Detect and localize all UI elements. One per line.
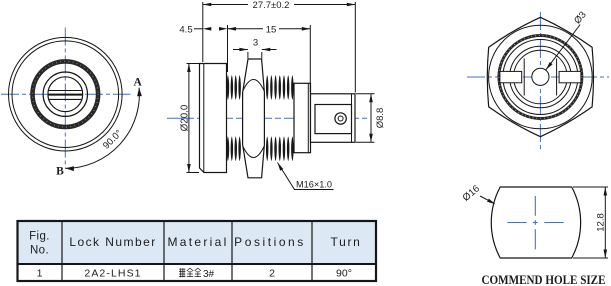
root cylinder step edge xyxy=(307,83,309,152)
dim 12.8 ext top xyxy=(573,186,608,188)
rear housing O8.8 xyxy=(311,94,356,143)
M16 leader line xyxy=(278,163,334,190)
svg-text:Ø8.8: Ø8.8 xyxy=(375,108,386,129)
dim O8.8 top arrow xyxy=(369,94,373,103)
dim 12.8 line xyxy=(604,187,606,258)
svg-text:Positions: Positions xyxy=(234,235,306,249)
svg-text:1: 1 xyxy=(37,268,43,280)
arc arrowhead at A end xyxy=(137,88,142,97)
table header fill xyxy=(18,221,377,264)
dim 27.7 line left segment xyxy=(203,4,248,6)
front view centerline horizontal xyxy=(1,93,131,95)
hole center mark horizontal xyxy=(507,222,526,224)
table column line 4 xyxy=(311,221,313,281)
rear view centerline horizontal xyxy=(467,76,609,78)
dim O8.8 ext top xyxy=(356,93,375,95)
svg-text:15: 15 xyxy=(266,24,277,35)
slot wall right inner xyxy=(556,59,558,96)
svg-text:Ø3: Ø3 xyxy=(572,9,589,26)
nut chamfer arc bottom xyxy=(243,147,264,158)
svg-text:2A2-LHS1: 2A2-LHS1 xyxy=(84,268,141,280)
key slot lower line xyxy=(49,98,82,100)
dim 15 extension right xyxy=(309,25,311,93)
dim 3 right arrow xyxy=(262,48,271,52)
dim 4.5 left arrow xyxy=(203,27,212,31)
dim 15 line right segment xyxy=(279,28,310,30)
knurled ring xyxy=(33,61,99,127)
rear view centerline vertical xyxy=(539,12,541,150)
svg-text:Lock Number: Lock Number xyxy=(69,235,156,249)
dim 3 ext left xyxy=(247,52,249,58)
dim 4.5 leader to ext xyxy=(194,28,203,30)
rear housing inner wall xyxy=(351,94,353,143)
dim 15 right arrow xyxy=(302,27,311,31)
svg-text:Material: Material xyxy=(167,235,228,249)
rear knurl inner circle xyxy=(503,40,578,115)
svg-text:Fig.: Fig. xyxy=(29,231,50,243)
right tab xyxy=(559,71,581,82)
table outer border xyxy=(18,221,377,281)
dim 3 left tail xyxy=(233,49,248,51)
rotation arc A to B xyxy=(65,88,139,169)
dim 12.8 bottom arrow xyxy=(604,250,608,259)
rear knurl texture xyxy=(499,36,582,119)
arc arrowhead at B end xyxy=(65,166,74,171)
dim 4.5 right arrow xyxy=(219,27,228,31)
table header divider xyxy=(18,263,377,265)
dim 15 line left segment xyxy=(228,28,264,30)
hex nut outline rear xyxy=(487,17,593,136)
thread section A bottom teeth xyxy=(227,136,230,161)
dim 3 left arrow xyxy=(239,48,248,52)
dim O8.8 line xyxy=(370,94,372,143)
dim 12.8 top arrow xyxy=(604,187,608,196)
key cylinder circle xyxy=(48,77,83,112)
M16 leader arrow xyxy=(278,163,284,171)
svg-text:3: 3 xyxy=(253,38,258,49)
nut chamfer circle xyxy=(489,25,593,129)
svg-text:COMMEND HOLE SIZE: COMMEND HOLE SIZE xyxy=(482,272,606,286)
terminal hole inner xyxy=(338,116,343,121)
knurl texture xyxy=(33,61,99,127)
nut chamfer arc top xyxy=(243,80,264,91)
flange O20 xyxy=(200,64,227,173)
rear knurl ring xyxy=(499,36,582,119)
svg-text:90°: 90° xyxy=(336,268,352,280)
hole center mark vertical xyxy=(534,196,536,216)
dim 12.8 ext bottom xyxy=(573,257,608,259)
front view centerline vertical xyxy=(64,28,66,169)
table column line 1 xyxy=(61,221,63,281)
dim O20 top arrow xyxy=(187,64,191,73)
O16 leader line xyxy=(480,196,494,203)
flange face inner line xyxy=(203,64,205,173)
svg-text:B: B xyxy=(56,166,64,178)
svg-text:2: 2 xyxy=(269,268,275,280)
O16 leader arrow xyxy=(487,199,495,205)
svg-text:12.8: 12.8 xyxy=(596,213,607,232)
svg-text:No.: No. xyxy=(30,245,49,257)
slot wall left inner xyxy=(523,59,525,96)
hole template outline xyxy=(491,187,580,258)
key slot upper line xyxy=(49,90,82,92)
dim 27.7 left extension line xyxy=(202,2,204,62)
dim O20 ext top xyxy=(187,63,200,65)
cam ring outer circle xyxy=(510,46,572,108)
svg-text:4.5: 4.5 xyxy=(179,24,192,35)
svg-text:3#: 3# xyxy=(203,269,215,280)
thread section B top teeth xyxy=(266,75,268,100)
dim 27.7 left arrow xyxy=(203,3,212,7)
bezel circle xyxy=(43,72,87,116)
dim O20 line xyxy=(188,64,190,173)
center hole O3 xyxy=(532,68,549,85)
svg-text:Turn: Turn xyxy=(330,235,361,249)
rear cavity rect xyxy=(315,105,352,134)
terminal hole outer xyxy=(335,113,346,124)
table column line 2 xyxy=(163,221,165,281)
dim O20 bottom arrow xyxy=(187,164,191,173)
svg-text:27.7±0.2: 27.7±0.2 xyxy=(253,0,290,11)
hex nut side view xyxy=(243,59,265,178)
dim 27.7 line right segment xyxy=(294,4,355,6)
dim O8.8 ext bottom xyxy=(356,141,375,143)
svg-text:M16×1.0: M16×1.0 xyxy=(296,180,332,190)
dim O8.8 bottom arrow xyxy=(369,134,373,143)
dim O20 ext bottom xyxy=(187,172,200,174)
front outer rim circle xyxy=(9,37,123,151)
dim 15 extension left xyxy=(227,25,229,72)
thread section A top teeth xyxy=(227,75,230,100)
key slot middle line xyxy=(48,94,83,96)
svg-text:Ø20.0: Ø20.0 xyxy=(179,104,190,131)
dim 3 right tail xyxy=(262,49,277,51)
thread root cylinder xyxy=(294,83,311,152)
cam ring inner circle xyxy=(514,50,568,104)
left tab xyxy=(500,71,522,82)
dim 3 ext right xyxy=(261,52,263,58)
front inner rim circle xyxy=(12,41,119,148)
side view centerline xyxy=(167,117,367,119)
svg-text:Ø16: Ø16 xyxy=(461,183,483,204)
dim 15 left arrow xyxy=(228,27,237,31)
dim 27.7 right arrow xyxy=(347,3,356,7)
table column line 3 xyxy=(231,221,233,281)
dim 27.7 right extension line xyxy=(354,2,356,93)
thread section B bottom teeth xyxy=(266,136,268,161)
O3 leader arrow xyxy=(546,62,553,70)
svg-text:A: A xyxy=(134,77,143,89)
cell material zinc alloy glyphs xyxy=(179,268,185,277)
svg-text:90.0°: 90.0° xyxy=(101,128,125,152)
O3 leader line xyxy=(546,25,580,70)
